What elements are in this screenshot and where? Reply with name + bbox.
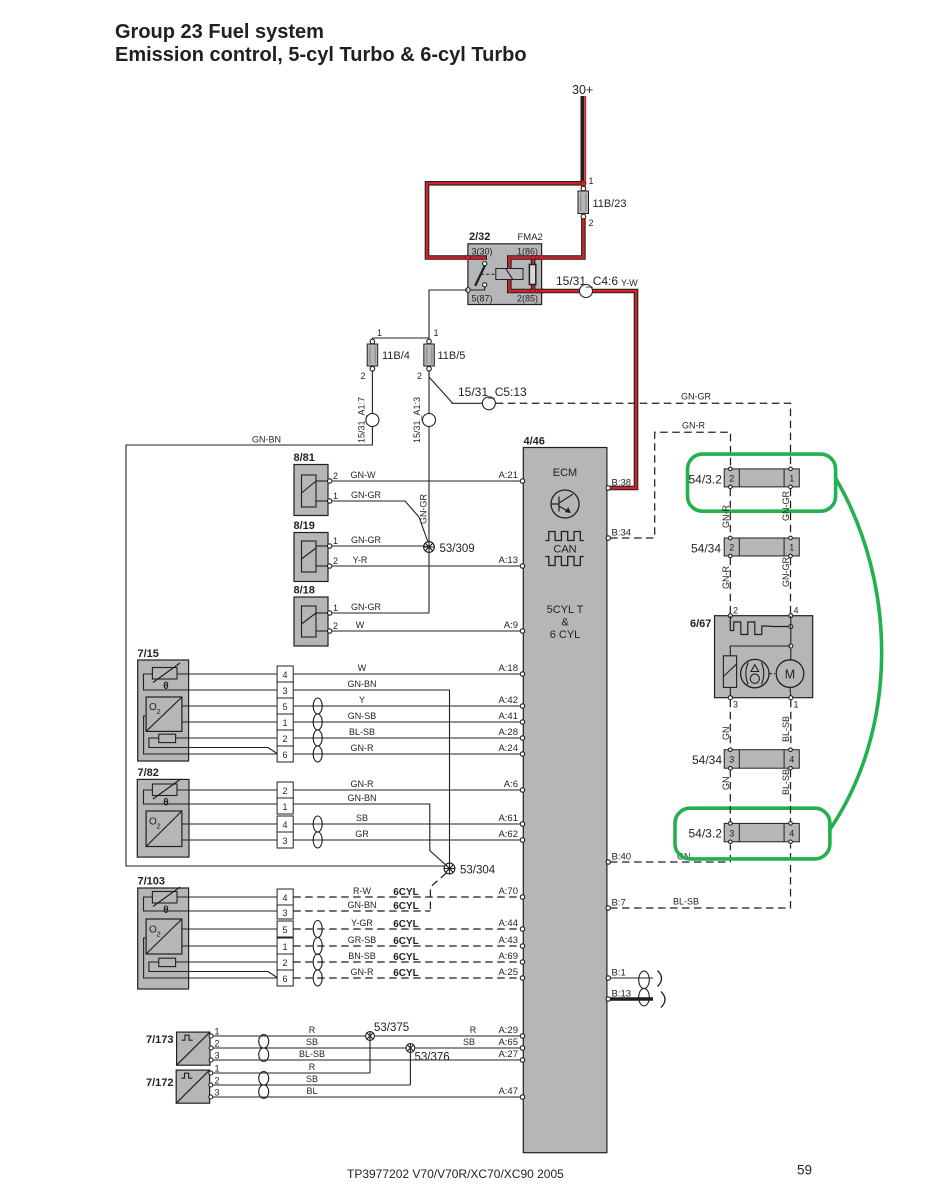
svg-text:2: 2 [333, 556, 338, 566]
wire GN-GR 8/19 to 53/309 [332, 546, 429, 547]
svg-text:R: R [309, 1062, 316, 1072]
connector 54/34 upper [691, 536, 799, 558]
wire Y to A:42 [293, 705, 522, 707]
twisted pair 7/103 lower [313, 954, 322, 986]
wire 11B/5 to node A1:3 [428, 371, 430, 414]
component 7/82 oxygen sensor [137, 767, 189, 857]
svg-text:6CYL: 6CYL [393, 919, 419, 930]
green link curve [830, 478, 882, 830]
svg-text:GN-R: GN-R [351, 967, 374, 977]
svg-text:1: 1 [333, 603, 338, 613]
wire Y-R 8/19 to A:13 [332, 565, 522, 567]
svg-text:8/81: 8/81 [294, 452, 315, 464]
svg-text:53/375: 53/375 [374, 1022, 409, 1034]
svg-text:11B/23: 11B/23 [593, 198, 627, 210]
svg-text:5(87): 5(87) [472, 294, 493, 304]
svg-text:GN-GR: GN-GR [781, 491, 791, 521]
svg-text:A:43: A:43 [498, 935, 518, 946]
svg-text:2/32: 2/32 [469, 231, 490, 243]
svg-text:6CYL: 6CYL [393, 901, 419, 912]
pin cells 7/15 [277, 666, 293, 762]
twisted pair 7/15 lower [313, 730, 322, 762]
wire GN-R dashed 54/3.2 to 54/34 [729, 489, 731, 536]
svg-text:2: 2 [333, 471, 338, 481]
svg-text:1: 1 [794, 700, 799, 710]
relay switch contact red stub [468, 258, 485, 261]
relay coil [496, 269, 523, 280]
wire 30+ feed (red with black core) [582, 96, 585, 183]
ECM pin A:47 [520, 1095, 524, 1099]
svg-text:3: 3 [733, 700, 738, 710]
component 7/172 camshaft sensor [146, 1064, 220, 1104]
svg-text:11B/4: 11B/4 [382, 350, 410, 362]
twisted pair 7/103 upper [313, 921, 322, 955]
wire GN-GR dashed 54/3.2 to 54/34 [790, 489, 792, 536]
wire SB 7/172 to 53/376 [213, 1084, 410, 1086]
svg-text:3: 3 [729, 829, 734, 839]
svg-text:A:69: A:69 [498, 951, 518, 962]
component 8/19 [294, 520, 339, 582]
wire BN-SB 6CYL to A:69 [293, 961, 522, 963]
svg-text:A:25: A:25 [498, 967, 518, 978]
wire GR to A:62 [293, 839, 522, 841]
green highlight box lower 54/3.2 [675, 808, 830, 859]
svg-text:54/34: 54/34 [692, 753, 722, 767]
wire GN-R 6CYL to A:25 [293, 977, 522, 979]
wire SB 7/173 to 53/376 to A:65 [213, 1047, 522, 1049]
wire 53/375 down to 7/172 R [369, 1040, 371, 1073]
svg-text:54/34: 54/34 [691, 542, 721, 556]
twisted pair 7/82 [313, 816, 322, 848]
svg-text:A:42: A:42 [498, 695, 518, 706]
wire W to A:18 [293, 673, 522, 675]
component 7/15 oxygen sensor [138, 648, 189, 761]
svg-text:5CYL T: 5CYL T [547, 604, 584, 616]
wires 7/103 box to pin cells [189, 897, 278, 978]
svg-text:2: 2 [215, 1076, 220, 1086]
svg-text:A:9: A:9 [504, 620, 518, 631]
splice 53/304 [444, 863, 496, 876]
relay switch [468, 262, 496, 291]
svg-text:3: 3 [215, 1088, 220, 1098]
svg-text:B:40: B:40 [612, 852, 632, 863]
svg-text:6CYL: 6CYL [393, 952, 419, 963]
svg-text:BL-SB: BL-SB [673, 897, 699, 907]
wire BL-SB dashed 54/34 to 54/3.2 lower [790, 770, 792, 821]
svg-text:4: 4 [789, 829, 794, 839]
svg-text:A:62: A:62 [498, 829, 518, 840]
svg-text:54/3.2: 54/3.2 [689, 473, 723, 487]
svg-text:6CYL: 6CYL [393, 887, 419, 898]
wire GN dashed B:40 to 54/3.2 pin 3 [610, 845, 730, 863]
svg-text:2: 2 [282, 958, 287, 968]
green highlight box upper 54/3.2 [688, 454, 836, 511]
svg-text:8/19: 8/19 [294, 520, 315, 532]
connector 54/3.2 upper [689, 467, 800, 489]
wire GN-SB to A:41 [293, 721, 522, 723]
wire GN-GR 53/309 down to 8/18 [428, 553, 430, 613]
svg-text:15/31_C4:6: 15/31_C4:6 [556, 274, 618, 288]
svg-text:7/82: 7/82 [138, 767, 159, 779]
svg-text:3: 3 [215, 1051, 220, 1061]
ECM pin A:62 [520, 838, 524, 842]
wire Y-GR 6CYL to A:44 [293, 928, 522, 930]
svg-text:53/376: 53/376 [415, 1052, 450, 1064]
svg-text:6/67: 6/67 [690, 618, 711, 630]
svg-text:8/18: 8/18 [294, 585, 315, 597]
svg-text:&: & [561, 617, 569, 629]
svg-text:54/3.2: 54/3.2 [689, 827, 723, 841]
svg-text:Emission control, 5-cyl Turbo: Emission control, 5-cyl Turbo & 6-cyl Tu… [115, 44, 527, 66]
svg-text:CAN: CAN [553, 544, 576, 556]
wire BL-SB 7/173 to A:27 [213, 1059, 522, 1061]
component 6/67 pump unit [690, 606, 813, 710]
svg-text:2(85): 2(85) [517, 294, 538, 304]
svg-text:A:13: A:13 [498, 555, 518, 566]
svg-text:1(86): 1(86) [517, 247, 538, 257]
ECM pin A:69 [520, 960, 524, 964]
node 15/31_C4:6 [580, 285, 593, 298]
connector 54/34 lower [692, 748, 799, 770]
svg-text:B:1: B:1 [612, 968, 626, 979]
svg-text:GR: GR [355, 829, 369, 839]
component 7/173 camshaft sensor [146, 1027, 220, 1066]
svg-text:GN-W: GN-W [351, 470, 376, 480]
svg-text:2: 2 [157, 930, 161, 939]
node 15/31_C5:13 [482, 397, 495, 410]
svg-text:BL-SB: BL-SB [349, 727, 375, 737]
svg-text:4: 4 [789, 755, 794, 765]
ECM pin B:1 [606, 976, 610, 980]
ECM pin A:28 [520, 736, 524, 740]
svg-text:4/46: 4/46 [524, 436, 545, 448]
svg-text:GN-BN: GN-BN [252, 435, 281, 445]
svg-text:2: 2 [589, 218, 594, 228]
svg-text:SB: SB [306, 1074, 318, 1084]
svg-text:A:65: A:65 [498, 1037, 518, 1048]
relay resistor [529, 265, 535, 285]
svg-text:2: 2 [729, 474, 734, 484]
svg-text:SB: SB [306, 1037, 318, 1047]
svg-text:3: 3 [282, 908, 287, 918]
svg-text:15/31_A1:7: 15/31_A1:7 [357, 397, 367, 443]
wire 11B/4 to node A1:7 [371, 371, 373, 414]
svg-text:GN-GR: GN-GR [351, 602, 381, 612]
wire GR-SB 6CYL to A:43 [293, 945, 522, 947]
svg-text:53/304: 53/304 [460, 865, 496, 877]
svg-text:3: 3 [282, 836, 287, 846]
svg-text:1: 1 [377, 328, 382, 338]
shield continuation arcs [658, 971, 662, 987]
svg-text:GN-BN: GN-BN [348, 679, 377, 689]
svg-text:A:6: A:6 [504, 779, 518, 790]
node 15/31_A1:7 [366, 414, 379, 427]
ECM pin A:27 [520, 1058, 524, 1062]
svg-text:2: 2 [157, 707, 161, 716]
svg-text:4: 4 [282, 820, 287, 830]
svg-text:30+: 30+ [572, 83, 593, 97]
svg-text:A:24: A:24 [498, 743, 518, 754]
svg-text:B:38: B:38 [612, 478, 632, 489]
wire BL 7/172 to A:47 [213, 1096, 522, 1098]
svg-text:2: 2 [733, 606, 738, 616]
svg-text:2: 2 [333, 621, 338, 631]
wire red loop to relay 3(30) [427, 183, 583, 257]
component 8/18 [294, 585, 339, 647]
relay 2/32 [468, 231, 543, 305]
svg-text:1: 1 [282, 718, 287, 728]
svg-text:A:61: A:61 [498, 813, 518, 824]
ECM pin A:18 [520, 672, 524, 676]
svg-text:1: 1 [215, 1064, 220, 1074]
svg-text:GN-GR: GN-GR [351, 490, 381, 500]
fuse 11B/4 [360, 328, 409, 381]
svg-text:2: 2 [360, 371, 365, 381]
ECM 4/46 [523, 436, 607, 1153]
svg-text:BN-SB: BN-SB [348, 951, 376, 961]
svg-text:1: 1 [282, 942, 287, 952]
svg-text:6CYL: 6CYL [393, 968, 419, 979]
svg-text:GN-BN: GN-BN [348, 793, 377, 803]
svg-text:2: 2 [157, 822, 161, 831]
svg-text:59: 59 [797, 1163, 812, 1178]
splice 53/375 [366, 1022, 410, 1040]
svg-text:1: 1 [333, 491, 338, 501]
svg-text:R-W: R-W [353, 886, 371, 896]
wires 7/82 box to pin cells [189, 790, 277, 840]
twisted triple 7/172 [259, 1072, 269, 1099]
wire GN-BN 7/82 to 53/304 [293, 804, 448, 867]
svg-text:GN: GN [721, 777, 731, 791]
wire BL-SB to A:28 [293, 737, 522, 739]
svg-text:11B/5: 11B/5 [438, 350, 466, 362]
svg-text:GN-GR: GN-GR [351, 535, 381, 545]
svg-text:1: 1 [589, 176, 594, 186]
wire GN-GR dashed 54/34 to 6/67 pin4 [790, 558, 792, 614]
svg-text:BL-SB: BL-SB [781, 769, 791, 795]
wire B:13 shielded thick [610, 997, 653, 1000]
component 8/81 [294, 452, 339, 516]
svg-text:1: 1 [282, 802, 287, 812]
svg-text:7/103: 7/103 [138, 876, 166, 888]
wire GN-R to A:24 [293, 753, 522, 755]
ECM pin B:34 [606, 536, 610, 540]
ECM pin B:40 [606, 860, 610, 864]
svg-text:4: 4 [282, 893, 287, 903]
node 15/31_A1:3 [423, 414, 436, 427]
svg-text:6: 6 [282, 750, 287, 760]
svg-text:A:18: A:18 [498, 663, 518, 674]
wire red 2(85) to C4:6 and down to B:38 [542, 291, 636, 488]
twisted pair B:1/B:13 [639, 971, 650, 1006]
wire GN dashed 54/34 to 54/3.2 lower [729, 770, 731, 821]
svg-text:GN-R: GN-R [351, 743, 374, 753]
svg-text:GN-GR: GN-GR [681, 392, 711, 402]
svg-text:A:41: A:41 [498, 711, 518, 722]
svg-text:1: 1 [789, 543, 794, 553]
svg-text:1: 1 [333, 536, 338, 546]
ECM pin A:13 [520, 564, 524, 568]
svg-text:BL-SB: BL-SB [299, 1049, 325, 1059]
wire R 7/173 to 53/375 to A:29 [213, 1035, 522, 1037]
svg-text:7/172: 7/172 [146, 1077, 174, 1089]
svg-text:GN-SB: GN-SB [348, 711, 377, 721]
wire GN-GR 8/81 to 53/309 [332, 501, 429, 545]
svg-text:GN-R: GN-R [351, 779, 374, 789]
svg-text:1: 1 [215, 1027, 220, 1037]
svg-text:BL: BL [306, 1086, 317, 1096]
wire GN-R to A:6 [293, 789, 522, 791]
wires 7/15 box to pin cells [189, 674, 278, 754]
ECM pin B:38 [606, 486, 610, 490]
wire GN-BN down [293, 690, 449, 863]
svg-text:SB: SB [463, 1037, 475, 1047]
svg-text:A:28: A:28 [498, 727, 518, 738]
svg-text:53/309: 53/309 [440, 543, 475, 555]
svg-text:3(30): 3(30) [472, 247, 493, 257]
svg-text:GN-GR: GN-GR [781, 557, 791, 587]
connector 54/3.2 lower [689, 822, 800, 844]
svg-text:1: 1 [789, 474, 794, 484]
svg-text:B:34: B:34 [612, 528, 632, 539]
svg-text:A:29: A:29 [498, 1025, 518, 1036]
svg-text:Y-GR: Y-GR [351, 918, 373, 928]
svg-text:SB: SB [356, 813, 368, 823]
ECM pin B:13 [606, 997, 610, 1001]
ECM pin A:29 [520, 1034, 524, 1038]
svg-text:2: 2 [282, 786, 287, 796]
ECM pin A:21 [520, 479, 524, 483]
wire R 7/172 to 53/375 [213, 1072, 370, 1074]
wire GN-W 8/81 to A:21 [332, 480, 522, 482]
pin cells 7/82 [277, 782, 293, 848]
svg-text:A:44: A:44 [498, 918, 518, 929]
junction dot node 30+/fuse [581, 181, 586, 186]
ECM pin A:44 [520, 927, 524, 931]
svg-text:4: 4 [794, 606, 799, 616]
wire 53/376 down to 7/172 SB [409, 1052, 411, 1085]
wire GN-R dashed 54/34 to 6/67 pin2 [729, 558, 731, 614]
wire R-W 6CYL to A:70 [293, 896, 522, 898]
svg-text:5: 5 [282, 925, 287, 935]
ECM pin B:7 [606, 906, 610, 910]
pin cells 7/103 [277, 889, 293, 986]
twisted triple 7/173 [259, 1035, 269, 1062]
wire red 30+ down to fuse 11B/23 [581, 183, 586, 189]
fuse 11B/5 [417, 328, 465, 381]
svg-text:A:70: A:70 [498, 886, 518, 897]
wire GN-BN 6CYL to 53/304 [293, 910, 430, 912]
ECM pin A:24 [520, 752, 524, 756]
svg-text:15/31_A1:3: 15/31_A1:3 [412, 397, 422, 443]
svg-text:BL-SB: BL-SB [781, 716, 791, 742]
svg-text:Group 23 Fuel system: Group 23 Fuel system [115, 21, 324, 43]
svg-text:1: 1 [434, 328, 439, 338]
wire 5(87) to fuses [372, 290, 468, 339]
ECM pin A:70 [520, 895, 524, 899]
ECM pin A:43 [520, 944, 524, 948]
splice 53/376 [406, 1044, 450, 1064]
wire SB to A:61 [293, 823, 522, 825]
wire 11B/5 to node C5:13 [429, 373, 482, 403]
svg-text:W: W [356, 620, 365, 630]
wire W 8/18 to A:9 [332, 630, 522, 632]
svg-text:4: 4 [282, 670, 287, 680]
svg-text:θ: θ [163, 798, 168, 809]
svg-text:2: 2 [282, 734, 287, 744]
component 7/103 oxygen sensor [138, 876, 189, 990]
wire BL-SB dashed B:7 to 54/3.2 pin 4 [610, 845, 791, 909]
wire B:1 shielded [610, 977, 653, 979]
svg-text:W: W [358, 663, 367, 673]
wire GN-GR dashed C5:13 to 54/3.2 pin1 [496, 403, 791, 466]
svg-text:6 CYL: 6 CYL [550, 629, 581, 641]
svg-text:A:21: A:21 [498, 470, 518, 481]
ECM pin A:42 [520, 704, 524, 708]
ECM pin A:6 [520, 788, 524, 792]
svg-text:A:27: A:27 [498, 1049, 518, 1060]
wire GN-R dashed B:34 to 54/3.2 pin 2 [610, 432, 731, 538]
wire red fuse to relay 1(86) [542, 218, 584, 258]
ECM pin A:41 [520, 720, 524, 724]
svg-text:A:47: A:47 [498, 1086, 518, 1097]
svg-text:2: 2 [729, 543, 734, 553]
svg-text:3: 3 [282, 686, 287, 696]
svg-text:15/31_C5:13: 15/31_C5:13 [458, 385, 527, 399]
svg-text:TP3977202 V70/V70R/XC70/XC90 2: TP3977202 V70/V70R/XC70/XC90 2005 [347, 1167, 564, 1181]
relay pin dots [466, 255, 471, 260]
svg-text:GN-R: GN-R [721, 566, 731, 589]
svg-text:2: 2 [215, 1039, 220, 1049]
wire dashed hook 53/304 to 7/103 GN-BN [430, 873, 446, 911]
svg-text:6CYL: 6CYL [393, 936, 419, 947]
wire GN-GR A1:3 to splice 53/309 [428, 427, 430, 542]
svg-text:6: 6 [282, 974, 287, 984]
svg-text:R: R [309, 1025, 316, 1035]
svg-text:7/173: 7/173 [146, 1034, 174, 1046]
svg-text:GR-SB: GR-SB [348, 935, 377, 945]
svg-text:3: 3 [729, 755, 734, 765]
wire GN dashed 6/67 pin3 to 54/34 pin3 [729, 700, 731, 748]
svg-text:GN-R: GN-R [682, 421, 705, 431]
svg-text:GN-R: GN-R [721, 505, 731, 528]
splice 53/309 [424, 542, 475, 555]
svg-text:Y: Y [359, 695, 365, 705]
svg-text:2: 2 [417, 371, 422, 381]
ECM pin A:61 [520, 822, 524, 826]
svg-text:M: M [785, 667, 795, 681]
svg-text:Y-R: Y-R [353, 555, 368, 565]
svg-text:B:7: B:7 [612, 898, 626, 909]
fuse 11B/23 [578, 176, 627, 228]
svg-text:GN: GN [721, 727, 731, 741]
wire GN-BN left bus [126, 427, 449, 869]
svg-text:R: R [470, 1025, 477, 1035]
svg-text:GN-BN: GN-BN [348, 900, 377, 910]
ECM pin A:65 [520, 1046, 524, 1050]
relay internal red path 86-85 [509, 258, 541, 292]
wire BL-SB dashed 6/67 pin1 to 54/34 pin4 [790, 700, 792, 748]
svg-text:7/15: 7/15 [138, 648, 159, 660]
wire GN-GR 8/18 to 53/309 [332, 612, 429, 614]
svg-text:ECM: ECM [553, 467, 577, 479]
ECM pin A:9 [520, 629, 524, 633]
twisted pair 7/15 upper [313, 698, 322, 730]
svg-text:Y-W: Y-W [621, 278, 638, 288]
svg-text:5: 5 [282, 702, 287, 712]
svg-text:FMA2: FMA2 [518, 232, 543, 243]
ECM pin A:25 [520, 976, 524, 980]
